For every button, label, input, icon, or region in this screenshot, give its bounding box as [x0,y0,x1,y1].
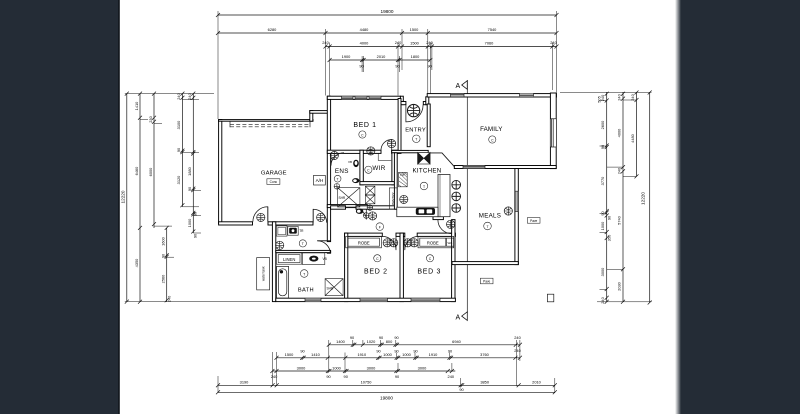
svg-text:1000: 1000 [332,365,341,370]
detector ens [334,175,341,182]
kitchen sink [416,208,435,215]
svg-text:240: 240 [448,374,455,379]
svg-text:3770: 3770 [600,176,605,185]
light bed1 wall right [388,140,396,148]
svg-text:12220: 12220 [640,192,645,205]
svg-text:ENS: ENS [335,168,349,175]
svg-text:A: A [456,315,461,322]
vent ens low [334,184,340,190]
window bath bottom [305,298,321,301]
svg-text:240: 240 [514,335,521,340]
svg-text:240: 240 [426,40,433,45]
light kitchen pantry [400,195,408,203]
svg-text:WA: WA [448,241,453,245]
svg-text:3000: 3000 [367,365,376,370]
svg-text:ROBE: ROBE [358,240,370,245]
wall family right [550,93,556,169]
light bed3 door pair [404,239,412,247]
svg-text:6940: 6940 [452,339,461,344]
wall corridor south [331,206,346,209]
robe bed3 [418,236,454,247]
kitchen wall vents [452,180,461,189]
kitchen bench bottom [397,207,438,217]
wall garage bottom [219,222,253,225]
detector meals [484,222,492,230]
ens wc [352,178,359,183]
svg-text:F: F [379,225,381,229]
wall bed2/bed3 [400,233,403,302]
wir shelf return [378,154,391,161]
svg-text:4000: 4000 [360,41,369,46]
svg-text:4000: 4000 [617,128,622,137]
svg-text:240: 240 [395,40,402,45]
wall bed1/entry [398,99,401,154]
label conc [267,179,280,185]
svg-text:4480: 4480 [360,27,369,32]
wall entry front left [400,102,406,105]
label a/h [314,175,326,185]
wall diagonal kitchen/family [430,153,455,167]
pantry closet [389,188,397,209]
svg-text:3000: 3000 [600,267,605,276]
robe bed2 [346,236,382,247]
door hall to meals [438,220,452,234]
svg-text:SHR: SHR [339,196,346,200]
svg-text:1600: 1600 [161,236,166,245]
white photo area [120,0,682,414]
svg-text:2010: 2010 [532,380,541,385]
svg-text:350: 350 [607,234,612,241]
fridge R/F [399,172,408,186]
washing machine [276,226,287,236]
label pave 1 [527,218,540,224]
wall lower-left outer [272,222,275,302]
window family bottom (slider) [463,166,485,169]
svg-text:Conc: Conc [270,180,278,184]
svg-text:2030: 2030 [617,281,622,290]
svg-text:3100: 3100 [176,120,181,129]
svg-text:PANTRY: PANTRY [391,191,395,205]
light garage rear door [257,213,265,221]
window family top 2 [520,93,534,96]
dim rowE 19800 [218,391,555,393]
door garage to corridor [313,209,326,222]
wall entry recess right jog [426,97,429,105]
wall bed3 right / meals left [452,220,455,302]
wall front (bed1) [327,96,400,99]
door corridor [356,209,366,219]
dim row4 [330,59,431,61]
light garage right door [317,213,325,221]
svg-text:3000: 3000 [418,365,427,370]
wall kitchen top / hall [392,150,429,152]
svg-text:ROBE: ROBE [427,240,439,245]
light laundry wall [276,241,284,249]
svg-text:10750: 10750 [361,380,373,385]
light hall east [447,220,455,228]
svg-text:240: 240 [617,167,622,174]
svg-text:Pave: Pave [483,279,490,283]
svg-text:3850: 3850 [480,380,489,385]
wall main left spine (garage right / ens left / laundry right) [327,96,330,241]
svg-text:1000: 1000 [402,352,411,357]
left tick lines [125,93,214,95]
wall meals right [515,169,518,265]
svg-text:BATH: BATH [298,288,314,294]
svg-text:1020: 1020 [367,339,376,344]
light front door (large) [407,104,419,116]
linen cupboard x-boxes [365,186,375,204]
trough TR [288,226,298,235]
svg-text:7060: 7060 [485,41,494,46]
svg-text:1910: 1910 [357,352,366,357]
window family top 1 [451,94,465,97]
svg-text:T: T [303,272,305,276]
label pave 2 [480,278,493,284]
wall meals bottom [452,262,518,265]
svg-text:T: T [423,185,425,189]
wc corridor [356,209,363,214]
kitchen bench right [438,175,450,217]
svg-text:R/F: R/F [400,173,405,177]
detector hall [376,223,384,231]
door bed1 [381,140,392,151]
svg-text:LINEN: LINEN [283,257,295,262]
svg-text:T: T [415,138,417,142]
svg-text:1880: 1880 [187,166,192,175]
small square bottom right [547,294,553,302]
wall garage left [219,120,222,224]
vent wc corridor [363,213,369,219]
door bed2 [382,236,396,250]
water tank [257,258,270,290]
window meals right [515,191,518,212]
svg-text:230: 230 [148,115,153,122]
svg-text:240: 240 [187,92,192,99]
svg-text:GARAGE: GARAGE [261,171,287,177]
wall bed1 bottom [327,150,381,153]
svg-text:240: 240 [271,374,278,379]
wall garage step to house [310,111,313,122]
detector kitchen [420,182,428,190]
svg-text:ENTRY: ENTRY [405,127,426,133]
door bed3 [405,236,419,250]
svg-text:2010: 2010 [377,54,386,59]
vanity + VB bath [302,253,326,265]
svg-text:240: 240 [617,93,622,100]
svg-text:6280: 6280 [268,27,277,32]
dim rowD [218,384,555,386]
svg-text:12220: 12220 [121,190,126,203]
svg-text:MEALS: MEALS [479,212,501,219]
svg-text:1000: 1000 [187,218,192,227]
dim row3 [326,46,557,48]
svg-text:BED 2: BED 2 [364,269,388,276]
detector bed1 [359,131,366,138]
svg-text:240: 240 [600,296,605,303]
light meals [504,207,512,215]
wall kitchen nib [433,217,443,220]
wall linen band [276,250,331,252]
svg-text:3120: 3120 [176,175,181,184]
svg-text:water tank: water tank [261,266,265,281]
shower bath [325,279,343,296]
svg-text:A/H: A/H [316,178,324,183]
svg-text:Pave: Pave [530,219,537,223]
svg-text:19800: 19800 [380,396,393,401]
bottom extension lines [218,340,555,393]
wall ens bottom [327,205,367,208]
detector entry [413,135,421,143]
window family right [550,119,556,147]
svg-text:TR: TR [299,229,304,233]
dim row1 19800 [218,14,557,16]
svg-text:VB: VB [348,160,352,164]
svg-text:VB: VB [323,257,327,261]
svg-text:2560: 2560 [161,274,166,283]
svg-text:BED 1: BED 1 [353,122,376,129]
wall hall south (bed2/bed3 top) [345,233,383,236]
bathtub [277,266,289,298]
wall wir bottom [360,182,395,185]
left band edge line [118,0,120,414]
svg-text:T: T [302,242,304,246]
detector bed3 [426,255,433,262]
svg-text:240: 240 [176,92,181,99]
svg-text:4480: 4480 [630,133,635,142]
dim rowA [329,344,520,346]
door ens [331,153,344,166]
svg-text:6000: 6000 [148,167,153,176]
svg-text:1900: 1900 [342,54,351,59]
svg-text:1500: 1500 [410,41,419,46]
svg-text:19800: 19800 [380,9,393,14]
svg-text:3000: 3000 [297,365,306,370]
wall bottom (bath/bed2/bed3) [276,298,456,301]
svg-text:240: 240 [630,93,635,100]
svg-text:1000: 1000 [383,352,392,357]
wall bed2 left [345,233,348,302]
window bed1 front 3 [369,96,381,99]
dim rowB [277,357,520,359]
svg-text:KITCHEN: KITCHEN [413,167,442,174]
detector wir [365,166,372,173]
svg-text:3190: 3190 [240,380,249,385]
svg-text:1000: 1000 [600,221,605,230]
svg-text:1800: 1800 [411,54,420,59]
svg-text:A: A [456,83,461,90]
svg-text:4350: 4350 [134,258,139,267]
svg-text:6460: 6460 [134,166,139,175]
wall entry recess left jog [400,96,403,104]
window bed2 bottom [360,298,388,301]
svg-text:2600: 2600 [600,120,605,129]
window bed1 front 1 [342,96,354,99]
svg-text:800: 800 [386,339,393,344]
svg-text:1500: 1500 [285,352,294,357]
svg-text:1410: 1410 [311,352,320,357]
svg-text:240: 240 [167,295,172,302]
light bed2 door pair [383,239,391,247]
svg-text:1400: 1400 [336,339,345,344]
svg-text:FAMILY: FAMILY [480,126,502,133]
svg-text:240: 240 [514,348,521,353]
door garage rear [253,207,268,222]
door front entry [406,105,423,122]
wall wir right [392,153,395,185]
svg-text:505: 505 [597,96,602,103]
garage door dashed lines [230,121,310,127]
svg-text:1410: 1410 [134,101,139,110]
wall kitchen/pantry left [394,153,397,209]
wall family bottom [454,166,556,169]
detector laundry [299,240,306,247]
section line [466,80,468,313]
top extension lines [218,11,557,119]
window bed1 front 2 [355,96,367,99]
wall garage top [219,120,313,122]
vent linen col [367,205,373,211]
wall wir left [360,150,363,185]
svg-text:7540: 7540 [488,27,497,32]
door laundry [317,241,330,254]
wall family top [427,94,556,97]
svg-text:BED 3: BED 3 [417,269,441,276]
light ens [330,151,338,159]
light corridor [369,212,377,220]
linen closet boxed label [276,253,301,264]
ens vanity basin [353,160,359,167]
svg-text:SHR: SHR [327,287,334,291]
light bed1 door [367,147,375,155]
dim rowC [272,370,455,372]
svg-text:5740: 5740 [617,215,622,224]
svg-text:T: T [337,177,339,181]
svg-text:1500: 1500 [410,27,419,32]
bowtie skylight kitchen [418,153,430,164]
svg-text:1910: 1910 [429,352,438,357]
detector bath [300,270,308,278]
svg-text:3760: 3760 [480,352,489,357]
detector bed2 [374,255,381,262]
shower ens [338,188,360,207]
detector family [489,136,496,143]
svg-text:240: 240 [550,40,557,45]
svg-text:240: 240 [322,40,329,45]
svg-text:T: T [486,225,488,229]
wall entry front right [423,102,427,105]
svg-text:WIR: WIR [372,165,385,172]
dim row2 [218,32,557,34]
window bed3 bottom [411,298,440,301]
wall entry right [427,104,430,147]
